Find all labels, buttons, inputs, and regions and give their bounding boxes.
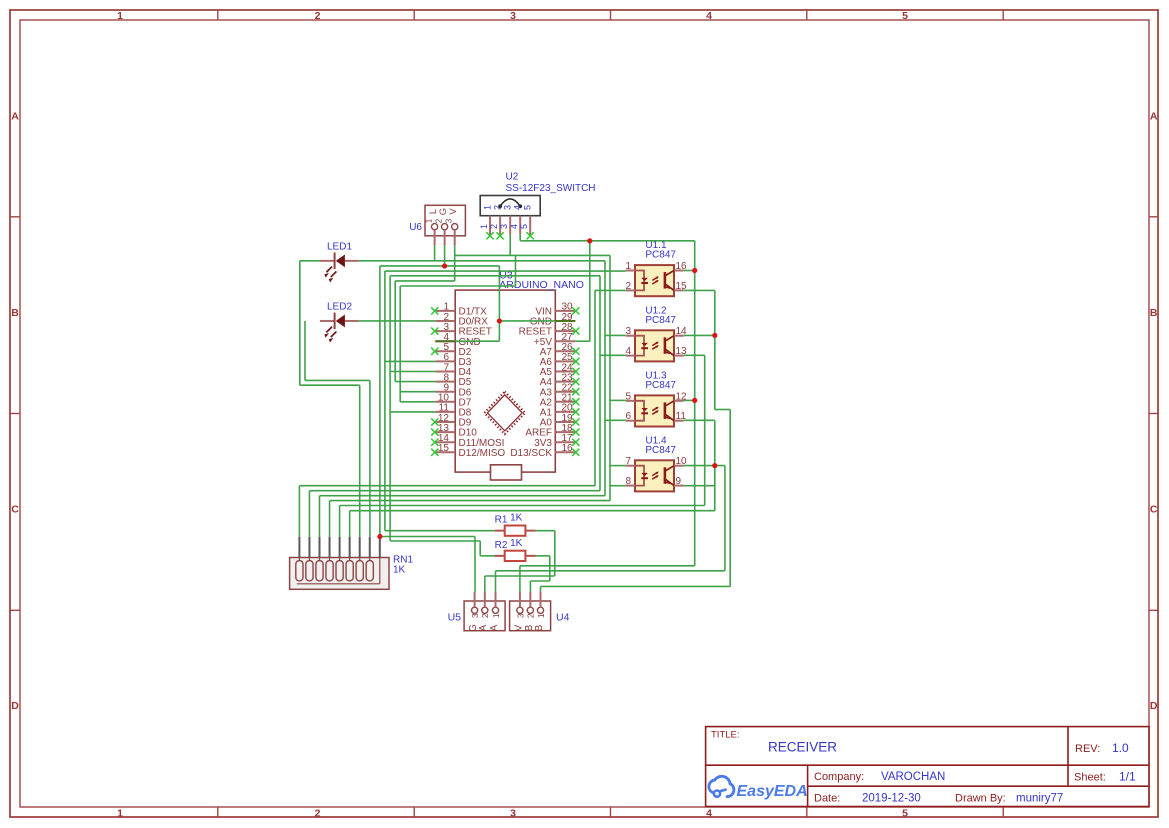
svg-text:U2: U2 (506, 172, 519, 183)
svg-text:5: 5 (902, 10, 908, 22)
svg-text:U5: U5 (448, 612, 462, 624)
svg-text:Drawn By:: Drawn By: (955, 793, 1006, 805)
svg-text:V: V (513, 624, 524, 631)
svg-text:2: 2 (315, 10, 321, 22)
svg-text:C: C (11, 504, 19, 516)
svg-text:4: 4 (625, 346, 631, 357)
svg-text:1K: 1K (393, 565, 406, 576)
svg-text:LED1: LED1 (327, 241, 352, 252)
svg-text:REV:: REV: (1075, 743, 1100, 755)
svg-text:5: 5 (519, 224, 529, 229)
svg-text:1.0: 1.0 (1112, 741, 1129, 755)
svg-text:1: 1 (117, 807, 123, 819)
svg-text:1K: 1K (510, 513, 523, 524)
svg-text:5: 5 (523, 205, 533, 210)
svg-text:B: B (11, 307, 19, 319)
svg-text:EasyEDA: EasyEDA (737, 783, 808, 800)
svg-text:ARDUINO_NANO: ARDUINO_NANO (499, 279, 584, 291)
svg-text:5: 5 (625, 391, 631, 402)
svg-text:4: 4 (509, 224, 519, 229)
svg-text:D: D (11, 700, 19, 712)
svg-text:2: 2 (489, 224, 499, 229)
svg-text:1: 1 (536, 613, 546, 618)
svg-text:3: 3 (625, 326, 631, 337)
svg-text:15: 15 (438, 443, 450, 454)
svg-text:LED2: LED2 (327, 301, 352, 312)
svg-text:2: 2 (493, 205, 503, 210)
svg-text:RECEIVER: RECEIVER (768, 740, 837, 755)
svg-text:1: 1 (491, 613, 501, 618)
svg-text:A: A (478, 624, 489, 631)
svg-text:D13/SCK: D13/SCK (510, 448, 552, 459)
svg-text:TITLE:: TITLE: (711, 730, 740, 741)
svg-text:Date:: Date: (814, 793, 840, 805)
svg-text:PC847: PC847 (645, 445, 676, 456)
svg-text:D: D (1150, 700, 1158, 712)
svg-text:3: 3 (445, 218, 454, 223)
svg-text:4: 4 (706, 10, 712, 22)
svg-text:U4: U4 (556, 612, 570, 624)
svg-text:PC847: PC847 (645, 250, 676, 261)
svg-text:2: 2 (480, 613, 490, 618)
svg-text:16: 16 (562, 443, 574, 454)
svg-text:D12/MISO: D12/MISO (459, 448, 506, 459)
svg-text:C: C (1150, 504, 1158, 516)
svg-text:3: 3 (515, 613, 525, 618)
svg-text:2: 2 (315, 807, 321, 819)
svg-text:4: 4 (513, 205, 523, 210)
svg-text:SS-12F23_SWITCH: SS-12F23_SWITCH (506, 183, 596, 194)
svg-text:1: 1 (483, 205, 493, 210)
svg-text:B: B (1150, 307, 1158, 319)
svg-text:8: 8 (625, 476, 631, 487)
svg-text:PC847: PC847 (645, 380, 676, 391)
svg-text:Company:: Company: (814, 771, 864, 783)
svg-text:2019-12-30: 2019-12-30 (862, 793, 921, 805)
svg-text:1/1: 1/1 (1119, 770, 1136, 784)
svg-text:1: 1 (479, 224, 489, 229)
svg-text:6: 6 (625, 411, 631, 422)
svg-text:A: A (489, 624, 500, 631)
svg-text:3: 3 (499, 224, 509, 229)
svg-text:R1: R1 (495, 515, 508, 526)
svg-text:1: 1 (625, 261, 631, 272)
svg-text:2: 2 (625, 281, 631, 292)
svg-text:Sheet:: Sheet: (1074, 772, 1106, 784)
svg-text:3: 3 (470, 613, 480, 618)
svg-text:9: 9 (676, 476, 682, 487)
svg-text:A: A (1150, 110, 1158, 122)
svg-text:U6: U6 (409, 222, 422, 233)
svg-text:R2: R2 (495, 540, 508, 551)
svg-text:A: A (11, 110, 19, 122)
svg-text:VAROCHAN: VAROCHAN (881, 771, 945, 783)
svg-text:3: 3 (503, 205, 513, 210)
svg-text:PC847: PC847 (645, 315, 676, 326)
svg-text:3: 3 (510, 10, 516, 22)
svg-text:2: 2 (526, 613, 536, 618)
svg-text:2: 2 (434, 218, 443, 223)
svg-text:5: 5 (902, 807, 908, 819)
svg-text:1: 1 (117, 10, 123, 22)
svg-text:V: V (448, 208, 459, 215)
svg-text:4: 4 (706, 807, 712, 819)
svg-text:muniry77: muniry77 (1016, 793, 1063, 805)
svg-text:7: 7 (625, 456, 631, 467)
svg-text:B: B (534, 624, 545, 631)
svg-text:1: 1 (424, 218, 433, 223)
svg-text:1K: 1K (510, 538, 523, 549)
svg-text:3: 3 (510, 807, 516, 819)
